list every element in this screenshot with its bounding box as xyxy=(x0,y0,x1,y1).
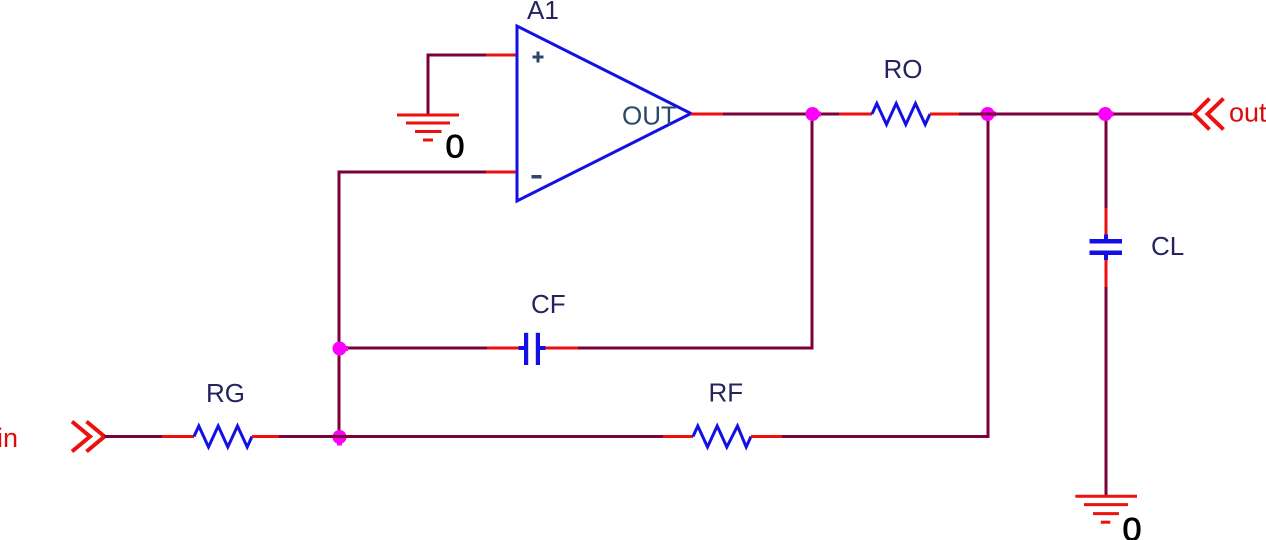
svg-text:CL: CL xyxy=(1151,231,1184,261)
pin label OUT xyxy=(622,101,677,131)
pin stub: RG right xyxy=(252,435,279,438)
svg-text:A1: A1 xyxy=(527,0,559,25)
port label out xyxy=(1229,98,1266,128)
wire: CL to ground xyxy=(1105,287,1108,495)
resistor RG xyxy=(194,426,252,447)
pin stub: RG left xyxy=(162,435,194,438)
label 0 (right ground) xyxy=(1123,512,1142,540)
node: junction at CL branch xyxy=(1098,107,1113,121)
pin label - xyxy=(532,175,542,179)
pin stub: CL bottom xyxy=(1105,260,1108,287)
svg-text:RO: RO xyxy=(884,54,923,84)
node: junction at CF/inverting xyxy=(333,342,349,356)
wire: +input net from ground up to op-amp xyxy=(428,55,486,114)
svg-text:RF: RF xyxy=(709,378,744,408)
svg-text:in: in xyxy=(0,423,18,453)
wire: CL branch from output line down xyxy=(1105,114,1108,208)
pin stub: RF left xyxy=(663,435,693,438)
pin stub: op-amp OUT pin xyxy=(691,113,723,116)
node: junction at OUT/CF branch xyxy=(806,107,822,121)
label A1 xyxy=(527,0,559,25)
wire: CF branch down from OUT node and left to CF xyxy=(578,114,812,348)
pin stub: CL top xyxy=(1105,208,1108,235)
resistor RO xyxy=(872,104,930,125)
pin label + xyxy=(533,52,544,63)
label RO xyxy=(884,54,923,84)
label RG xyxy=(206,378,245,408)
label RF xyxy=(709,378,744,408)
svg-text:out: out xyxy=(1229,98,1266,128)
wire: RO to out port xyxy=(959,113,1193,116)
pin stub: CF right xyxy=(546,347,579,350)
capacitor CF xyxy=(519,333,546,365)
pin stub: RO left xyxy=(839,113,872,116)
node: junction at RF branch xyxy=(981,107,996,121)
wire: in port to RG xyxy=(105,435,163,438)
ground 0 (at op-amp + input) xyxy=(397,115,459,140)
port label in xyxy=(0,423,18,453)
svg-text:0: 0 xyxy=(1123,512,1142,540)
svg-text:RG: RG xyxy=(206,378,245,408)
wire: RF up to output line xyxy=(782,114,988,437)
wire: RG to RF xyxy=(279,435,663,438)
wire: CF to inverting node xyxy=(339,347,487,350)
node: junction at RG/RF xyxy=(333,430,347,446)
svg-text:0: 0 xyxy=(446,129,465,165)
pin stub: op-amp + pin xyxy=(486,54,517,57)
pin stub: RO right xyxy=(930,113,959,116)
label 0 (left ground) xyxy=(446,129,465,165)
pin stub: RF right xyxy=(751,435,782,438)
ground 0 (at CL) xyxy=(1075,496,1137,522)
op-amp A1 xyxy=(517,26,691,201)
port in chevron xyxy=(72,422,105,452)
svg-text:OUT: OUT xyxy=(622,101,677,131)
pin stub: op-amp - pin xyxy=(486,171,517,174)
label CF xyxy=(531,289,566,319)
wire: -input net vertical from feedback node xyxy=(339,172,486,437)
resistor RF xyxy=(693,426,751,447)
label CL xyxy=(1151,231,1184,261)
pin stub: CF left xyxy=(487,347,519,350)
svg-text:CF: CF xyxy=(531,289,566,319)
port out chevron xyxy=(1194,99,1224,130)
wire: OUT to RO xyxy=(723,113,839,116)
capacitor CL xyxy=(1090,235,1123,261)
